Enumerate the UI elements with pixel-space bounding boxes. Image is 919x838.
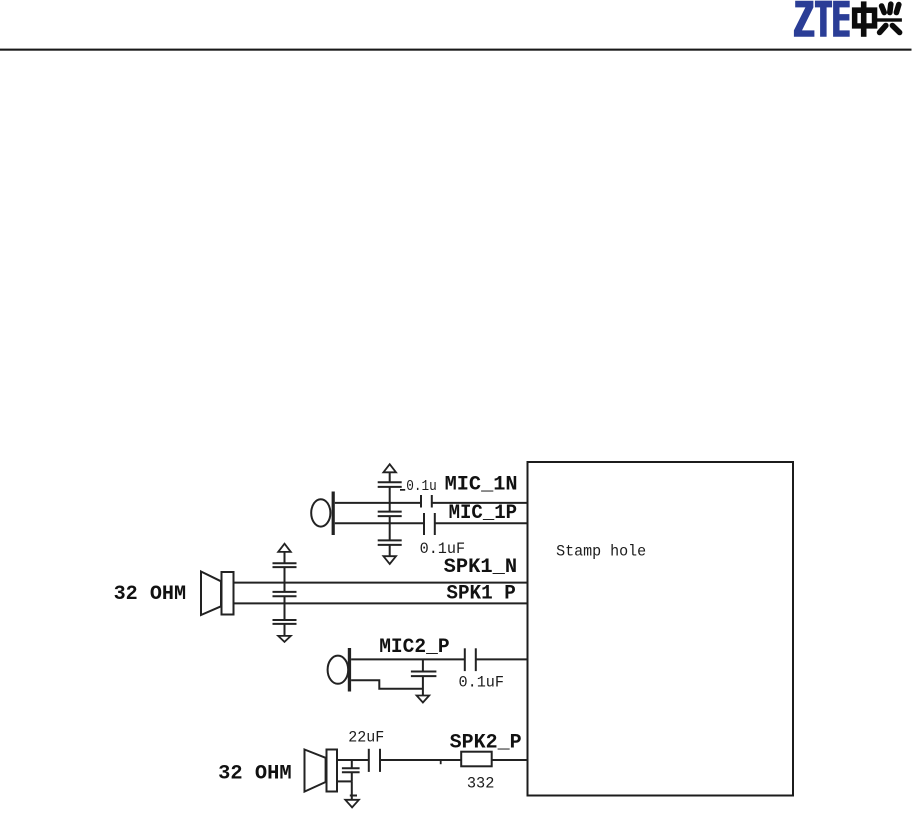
svg-text:0.1uF: 0.1uF (459, 673, 505, 691)
svg-text:22uF: 22uF (348, 729, 384, 747)
svg-text:32 OHM: 32 OHM (114, 583, 187, 606)
svg-text:Stamp hole: Stamp hole (556, 542, 646, 560)
svg-text:MIC2_P: MIC2_P (379, 636, 450, 659)
svg-text:0.1uF: 0.1uF (420, 540, 466, 558)
svg-text:MIC_1N: MIC_1N (445, 473, 518, 496)
svg-text:MIC_1P: MIC_1P (449, 502, 517, 525)
svg-text:0.1u: 0.1u (406, 478, 437, 495)
svg-text:SPK2_P: SPK2_P (450, 731, 522, 754)
svg-text:32 OHM: 32 OHM (218, 763, 292, 786)
svg-text:332: 332 (467, 774, 495, 792)
svg-text:SPK1_N: SPK1_N (444, 556, 517, 579)
svg-text:SPK1 P: SPK1 P (446, 583, 516, 606)
